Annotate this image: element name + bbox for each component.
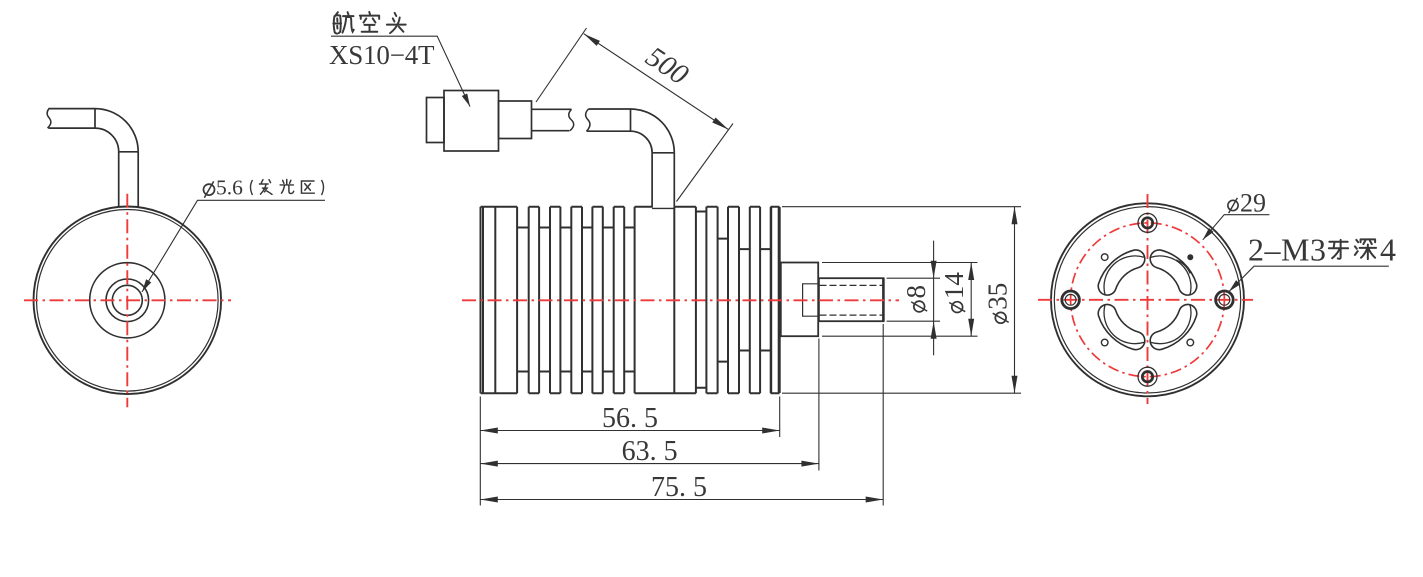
dimension line phi8 [933, 241, 935, 356]
dimension line phi35 [1014, 207, 1016, 394]
arrow 500 lower [712, 117, 730, 132]
heatsink fin vertical lines right section [696, 207, 771, 394]
extension lines phi8 [887, 278, 940, 321]
shoulder block [781, 263, 818, 337]
extension line left body [479, 397, 481, 506]
left view aperture circle [106, 279, 149, 322]
heatsink valley lines bottom right [696, 351, 771, 388]
shaft relief bracket inside shoulder [803, 284, 819, 316]
threaded shaft body [819, 278, 884, 321]
vent slot bottom-right [1150, 305, 1197, 350]
heatsink fin vertical lines left section [495, 207, 634, 394]
connector label arrow [462, 93, 473, 107]
left view outer circle [34, 206, 222, 394]
leader arrow 2-M3 [1227, 280, 1240, 293]
svg-text:63. 5: 63. 5 [622, 436, 678, 467]
small hole bottom-left [1101, 339, 1108, 346]
svg-text:XS10−4T: XS10−4T [329, 40, 435, 70]
arrows 63.5 [480, 461, 498, 467]
leader arrow emitting area [139, 279, 151, 293]
bolt circle red dashed [1071, 223, 1225, 377]
shaft end thick edge [882, 278, 885, 321]
svg-text:2–M3: 2–M3 [1248, 232, 1326, 268]
M3 hole right [1216, 291, 1234, 309]
heatsink valley lines top right [696, 212, 771, 250]
vent slot top-right [1150, 250, 1197, 295]
arrows 56.5 [480, 428, 498, 434]
svg-text:500: 500 [640, 41, 694, 92]
left view cable elbow inner arc [95, 128, 119, 152]
heatsink left edge double line [481, 207, 484, 394]
right view outer circle [1051, 203, 1244, 396]
dimension line 500 [584, 34, 729, 130]
heatsink bottom outline [481, 392, 780, 394]
left view emitting area circle [112, 285, 142, 315]
arrows phi14 [968, 263, 974, 281]
heatsink right end cap [770, 207, 772, 394]
svg-text:8: 8 [901, 285, 931, 299]
dimension line phi14 [970, 263, 972, 337]
svg-text:29: 29 [1240, 189, 1266, 218]
vent slot top-right edge line [1151, 256, 1191, 295]
extension line lower [677, 124, 734, 202]
vent slot bottom-left [1098, 305, 1145, 350]
arrows 75.5 [480, 497, 498, 503]
connector back cap [427, 98, 445, 143]
cable elbow inner arc [631, 131, 653, 153]
label phi5.6 emitting area [203, 176, 323, 200]
leader phi29 [1203, 215, 1270, 240]
label aviation plug hangkongtou [333, 12, 405, 34]
heatsink right end thick edge [778, 207, 781, 393]
extension line upper [536, 28, 587, 102]
arrows phi35 [1012, 207, 1018, 225]
extension line body right [779, 397, 781, 438]
dimension text phi8 [901, 285, 931, 312]
left view cable cut end [47, 109, 51, 129]
cable segment 1 [532, 109, 572, 130]
extension lines phi35 [782, 207, 1021, 394]
left view cable elbow joint [119, 151, 139, 153]
cable elbow joint line [630, 109, 632, 131]
cable break wave 1 [569, 109, 574, 130]
bolt hole bottom [1138, 367, 1157, 386]
vent slot top-right bevel [1176, 260, 1190, 274]
left view cable elbow outer arc [95, 109, 138, 152]
right view red centerlines [1038, 194, 1253, 404]
heatsink valley lines top left [517, 227, 635, 229]
label phi29 [1228, 189, 1266, 218]
bottom dimension extension lines [480, 324, 883, 506]
cable elbow outer arc [631, 109, 675, 153]
heatsink section boundary at cable [673, 207, 675, 394]
leader arrow phi29 [1201, 228, 1214, 242]
arrow 500 upper [582, 31, 600, 46]
vent slot bottom-left edge line [1104, 304, 1144, 343]
dimension text phi35 [983, 283, 1013, 323]
dimension text phi14 [939, 272, 969, 313]
left view cable vertical tube [119, 152, 139, 208]
dimension line 63.5 [480, 463, 819, 465]
connector label leader [331, 36, 470, 106]
bolt hole top [1138, 213, 1157, 232]
cable tube joint line [652, 152, 674, 154]
right side diameter dimensions [782, 207, 1021, 394]
svg-text:35: 35 [983, 283, 1013, 310]
extension line shaft right [882, 324, 884, 506]
heatsink surface under tube [652, 207, 674, 209]
leader line for emitting area [142, 200, 325, 292]
connector neck [499, 101, 532, 139]
left view cable horizontal segment [49, 109, 96, 129]
cable tube into heatsink [652, 153, 674, 208]
vent slot bottom-right edge line [1151, 304, 1191, 343]
svg-text:56. 5: 56. 5 [602, 403, 658, 434]
vent slot top-left edge line [1104, 256, 1144, 295]
index dot top-right filled [1187, 254, 1193, 260]
svg-text:5.6: 5.6 [216, 176, 243, 200]
svg-text:75. 5: 75. 5 [651, 472, 707, 503]
extension lines phi14 [822, 263, 978, 337]
middle view red centerline [462, 299, 899, 301]
cable length dimension 500 [536, 28, 733, 202]
arrows phi8 outside pointing in [931, 261, 937, 279]
left view lens ring circle [90, 263, 165, 338]
vent slot top-left [1098, 250, 1145, 295]
dimension line 56.5 [480, 430, 779, 432]
M3 hole left [1062, 291, 1080, 309]
connector body [444, 91, 499, 152]
dimension line 75.5 [480, 499, 883, 501]
right view inner ring [1054, 207, 1240, 393]
svg-text:4: 4 [1380, 232, 1396, 268]
label 2-M3 thread depth 4 [1248, 232, 1396, 268]
small hole top-left [1101, 254, 1108, 261]
shaft hidden thread dashed lines [820, 285, 884, 315]
heatsink top outline [481, 206, 780, 208]
heatsink valley lines bottom left [517, 371, 635, 373]
small hole bottom-right [1187, 339, 1194, 346]
extension line shoulder right [818, 339, 820, 471]
left view cable joint line [94, 109, 96, 129]
leader 2-M3 [1229, 266, 1389, 291]
cable break wave 2 [586, 109, 590, 131]
svg-text:14: 14 [939, 272, 969, 300]
left view red centerlines [24, 194, 231, 407]
cable segment 2 [587, 109, 631, 131]
left view outer inner ring [37, 209, 219, 391]
